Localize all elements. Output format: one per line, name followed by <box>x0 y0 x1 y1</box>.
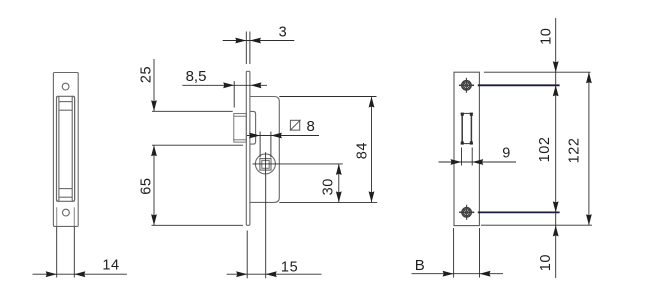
square-8 extension line right <box>270 132 272 158</box>
dim 15 arrow left <box>236 271 247 277</box>
svg-text:25: 25 <box>139 66 155 83</box>
dim 30 arrow up <box>336 164 342 175</box>
svg-text:65: 65 <box>139 177 155 194</box>
dim 25 line <box>153 59 155 111</box>
case edge extension left to dim 14 <box>56 226 58 277</box>
plate bottom extension line <box>481 224 592 226</box>
dimension 14 arrow left <box>46 271 57 277</box>
dim 8,5 line <box>182 84 267 86</box>
latch tip extension line <box>233 81 235 108</box>
svg-text:14: 14 <box>102 257 119 273</box>
bolt rung bottom 1 <box>59 188 72 190</box>
lock case <box>250 97 279 203</box>
dim 65 arrow down <box>151 214 157 225</box>
faceplate outline <box>53 73 78 227</box>
latch bolt protruding <box>234 114 247 143</box>
bolt left channel <box>57 96 59 201</box>
latch top extension line <box>152 110 233 112</box>
plate top extension line <box>484 71 591 73</box>
svg-text:10: 10 <box>539 28 555 45</box>
dim 84 line <box>371 97 373 202</box>
dim 3 line <box>223 40 295 42</box>
spindle center horizontal centerline/extension <box>252 163 342 165</box>
dim 3 arrow right <box>250 38 261 44</box>
dim 102 arrow up (at navy top) <box>553 85 559 96</box>
case edge left (behind plate) <box>56 207 58 226</box>
screw hole top <box>62 83 69 90</box>
dim 15 arrow right <box>266 271 277 277</box>
dim 30 line <box>338 164 340 202</box>
dim 10 bottom arrow up <box>553 225 559 236</box>
dim B arrow right <box>480 271 491 277</box>
dimension 14 arrow right <box>74 271 85 277</box>
svg-text:8: 8 <box>307 118 315 135</box>
spindle vertical extension to dim 15 <box>265 174 267 278</box>
svg-text:9: 9 <box>502 146 511 162</box>
spindle square outer <box>260 159 271 171</box>
crease line bottom (navy) <box>478 211 560 213</box>
dim B extension line right <box>479 228 481 278</box>
square-8 arrow left <box>249 133 260 139</box>
dim 3 arrow left <box>235 38 246 44</box>
dim 9 line <box>439 161 517 163</box>
bolt housing behind plate <box>250 111 256 144</box>
bolt slot corner serifs <box>461 113 473 145</box>
dim B arrow left <box>443 271 454 277</box>
square symbol <box>290 120 301 131</box>
crease line top (navy) <box>478 84 560 86</box>
bolt rung bottom 2 <box>59 196 72 198</box>
square-8 extension line left <box>259 132 261 158</box>
bolt rung top 2 <box>59 109 72 111</box>
svg-text:10: 10 <box>538 254 554 271</box>
dim 9 arrow left <box>451 159 462 165</box>
dim 102 arrow down (at navy bottom) <box>553 201 559 212</box>
dim 25 arrow down <box>151 100 157 111</box>
dim 84 arrow down <box>369 191 375 202</box>
dim 84 arrow up <box>369 97 375 108</box>
spindle hole circle <box>255 154 275 174</box>
dim 122 line <box>588 72 590 225</box>
dim 30 arrow down <box>336 191 342 202</box>
svg-text:30: 30 <box>321 178 337 195</box>
dim 9 extension line right <box>471 148 473 166</box>
case edge extension right to dim 14 <box>73 226 75 277</box>
faceplate side bar <box>246 71 250 225</box>
dim B line <box>412 273 504 275</box>
bolt right channel <box>72 96 74 201</box>
spindle square inner <box>262 161 269 169</box>
screw hole top center mark <box>465 84 468 87</box>
square-8 dim line <box>247 135 319 137</box>
screw hole bottom center mark <box>465 211 468 214</box>
dim 10 top arrow down <box>553 61 559 72</box>
plate bottom extension line <box>152 224 244 226</box>
cover plate outline <box>454 72 479 225</box>
extension line above plate front face for dim 3 <box>245 32 247 65</box>
svg-text:122: 122 <box>567 137 583 163</box>
square-8 arrow right <box>271 133 282 139</box>
plate extension to dim 15 <box>246 231 248 279</box>
dim 10/102 vertical line <box>555 18 557 278</box>
latch bolt top bevel line <box>234 115 247 117</box>
dim 8,5 arrow left <box>223 82 234 88</box>
dim 122 arrow up <box>586 72 592 83</box>
dim B extension line left <box>453 228 455 278</box>
screw hole symbol top <box>459 78 474 93</box>
svg-text:102: 102 <box>537 136 553 162</box>
case top extension line <box>279 96 376 98</box>
bolt slot <box>461 113 473 143</box>
svg-text:15: 15 <box>281 260 298 276</box>
dim 122 arrow down <box>586 214 592 225</box>
dim 8,5 arrow right <box>250 82 261 88</box>
slot cutout <box>57 96 75 201</box>
dim 9 extension line left <box>461 148 463 166</box>
dim 9 arrow right <box>472 159 483 165</box>
dimension 14 line <box>33 273 127 275</box>
bolt rung top 1 <box>59 101 72 103</box>
latch bottom extension line <box>152 144 243 146</box>
case bottom extension line <box>279 201 377 203</box>
screw hole bottom <box>63 209 70 216</box>
dim 65 arrow up <box>151 145 157 156</box>
svg-text:84: 84 <box>354 142 370 159</box>
dim 15 line <box>227 273 322 275</box>
extension line above plate back face for dim 3 <box>249 32 251 65</box>
svg-text:3: 3 <box>279 25 288 41</box>
latch bolt bottom bevel line <box>234 139 247 141</box>
case edge right (behind plate) <box>73 207 75 226</box>
screw hole symbol bottom <box>459 205 474 220</box>
spindle vertical centerline top part <box>265 152 267 174</box>
dim 65 line <box>153 146 155 225</box>
svg-text:8,5: 8,5 <box>186 68 207 85</box>
svg-text:B: B <box>415 257 425 274</box>
